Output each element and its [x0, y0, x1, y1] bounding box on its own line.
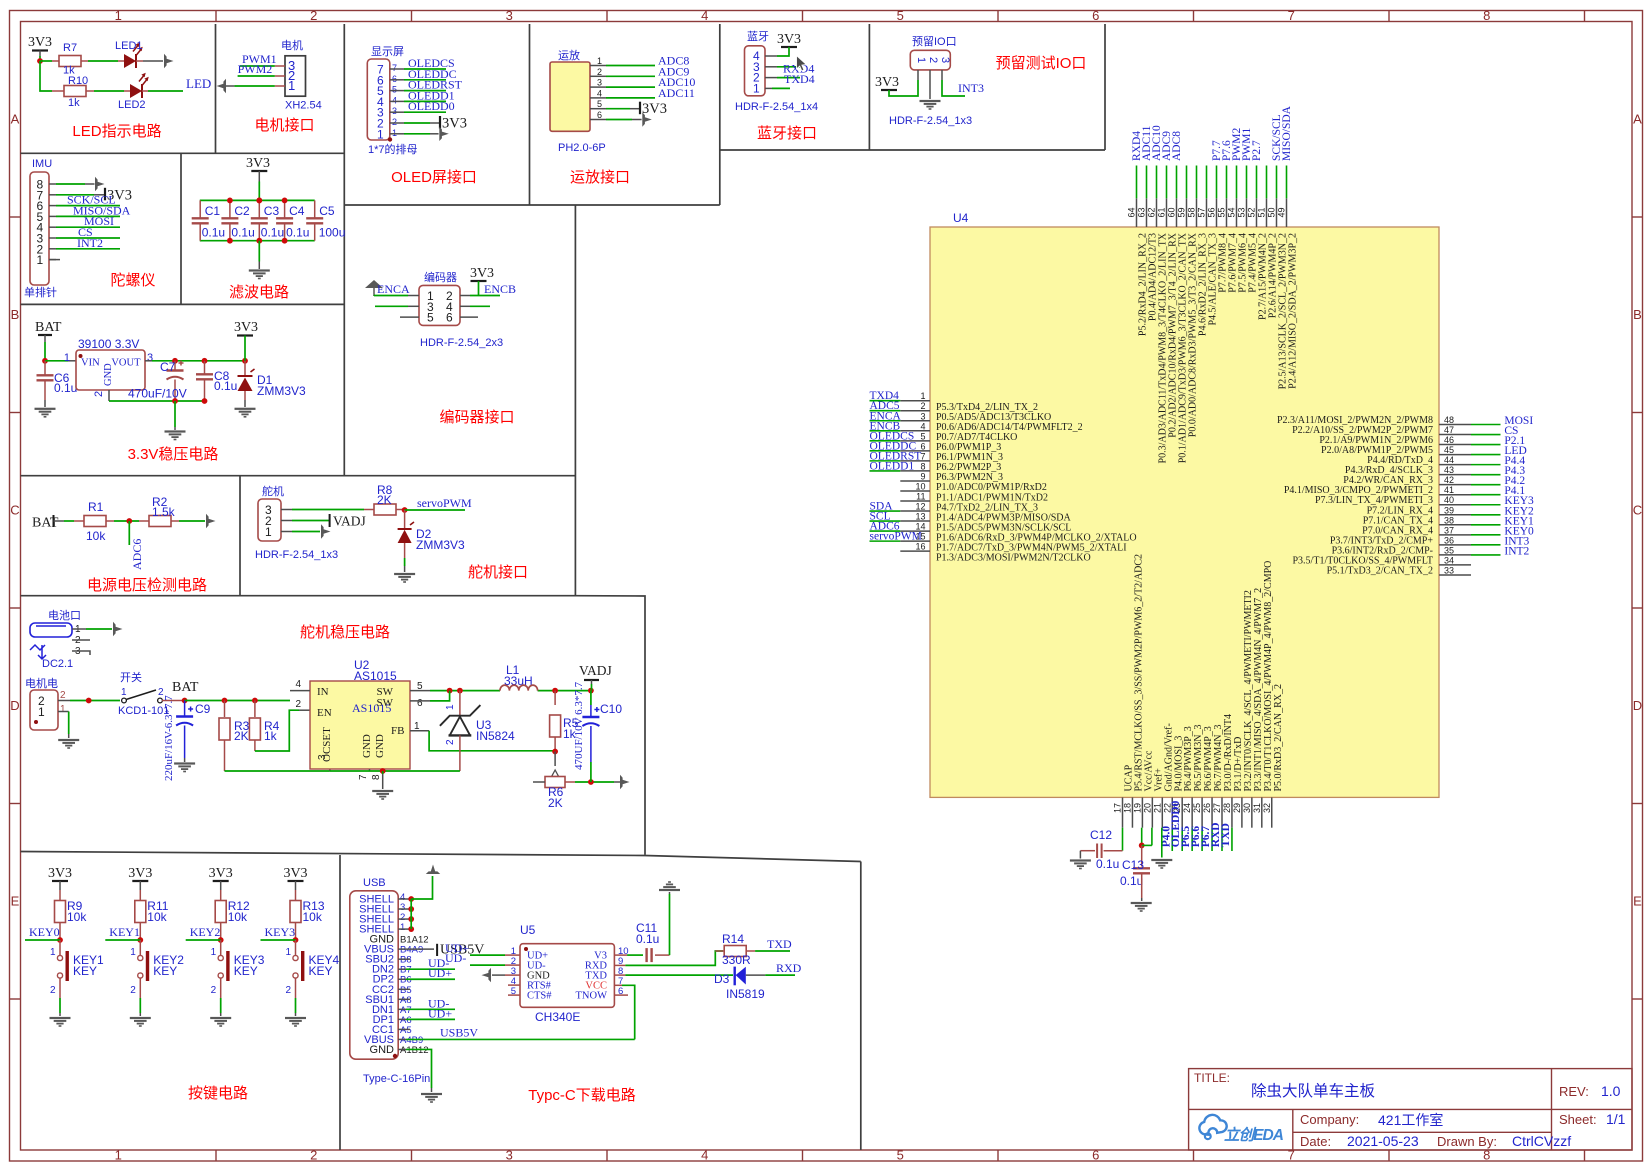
- svg-text:2: 2: [130, 985, 136, 996]
- svg-text:1: 1: [597, 56, 602, 66]
- svg-text:INT2: INT2: [1504, 545, 1529, 557]
- svg-text:3: 3: [920, 411, 925, 421]
- potentiometer R6: [545, 770, 565, 788]
- capacitor C1: [199, 200, 201, 218]
- svg-text:预留IO口: 预留IO口: [912, 35, 957, 48]
- wire: [404, 558, 406, 566]
- port bat1: [113, 622, 123, 636]
- wire motor-power pin2 to gnd: [58, 711, 69, 713]
- wire: [772, 87, 790, 89]
- svg-text:D: D: [10, 698, 19, 713]
- wire: [470, 295, 500, 297]
- svg-text:53: 53: [1237, 207, 1247, 217]
- svg-text:陀螺仪: 陀螺仪: [110, 272, 155, 289]
- junction: [126, 518, 132, 524]
- MCU bottom pins group: [1113, 554, 1284, 851]
- svg-text:单排针: 单排针: [24, 285, 57, 299]
- junction: [137, 937, 143, 943]
- net flag VADJ (servo): [281, 520, 292, 522]
- svg-text:KEY1: KEY1: [109, 925, 140, 939]
- wire: [258, 182, 260, 201]
- svg-text:BAT: BAT: [172, 680, 199, 695]
- svg-text:4: 4: [392, 95, 397, 105]
- capacitor: [647, 948, 652, 962]
- svg-text:ADC11: ADC11: [658, 86, 695, 100]
- wire DN2 UD-: [398, 968, 406, 970]
- wire: [590, 762, 592, 782]
- svg-text:35: 35: [1444, 545, 1454, 555]
- svg-text:Sheet:: Sheet:: [1559, 1112, 1597, 1127]
- wire FB: [410, 730, 429, 732]
- power flag 3V3: [288, 880, 304, 882]
- pushbutton KEY2: [139, 940, 141, 956]
- svg-text:8: 8: [1483, 8, 1490, 23]
- svg-text:servoPWM: servoPWM: [417, 496, 472, 510]
- svg-text:1: 1: [285, 947, 291, 958]
- wire: [292, 531, 320, 533]
- svg-text:0.1u: 0.1u: [202, 226, 225, 240]
- wire shell tie: [410, 899, 412, 929]
- svg-text:0.1u: 0.1u: [286, 226, 309, 240]
- svg-text:VIN: VIN: [81, 358, 100, 369]
- wire: [470, 964, 505, 966]
- svg-text:42: 42: [1444, 475, 1454, 485]
- resistor R2: [139, 520, 149, 522]
- svg-text:6: 6: [597, 110, 602, 120]
- ground: [421, 1093, 442, 1103]
- junction: [282, 238, 288, 244]
- svg-text:1.0: 1.0: [1601, 1083, 1621, 1099]
- wire: [470, 305, 490, 307]
- svg-text:A: A: [11, 112, 20, 127]
- port u5 gnd: [482, 968, 492, 982]
- svg-text:4: 4: [295, 679, 301, 690]
- svg-text:61: 61: [1157, 207, 1167, 217]
- wire LED1 out: [136, 60, 143, 62]
- wire: [128, 521, 130, 545]
- svg-text:43: 43: [1444, 465, 1454, 475]
- svg-text:36: 36: [1444, 535, 1454, 545]
- svg-text:GND: GND: [374, 734, 386, 758]
- svg-text:INT3: INT3: [958, 81, 984, 95]
- wire IMU pin: [49, 226, 56, 228]
- wire: [404, 79, 446, 81]
- svg-text:1: 1: [377, 127, 384, 141]
- svg-text:2: 2: [295, 699, 301, 710]
- junction shell: [408, 916, 414, 922]
- svg-text:REV:: REV:: [1559, 1084, 1589, 1099]
- svg-text:PH2.0-6P: PH2.0-6P: [558, 142, 606, 154]
- resistor R5: [554, 691, 556, 705]
- zener diode D2 ZMM3V3: [404, 510, 406, 528]
- junction: [282, 198, 288, 204]
- resistor: [64, 86, 86, 97]
- svg-text:B: B: [11, 307, 20, 322]
- svg-text:U5: U5: [520, 923, 536, 937]
- wire bt pin1: [765, 87, 772, 89]
- wire TXD pin8 to D3: [614, 974, 625, 976]
- wire opamp pin: [590, 75, 606, 77]
- svg-text:TNOW: TNOW: [576, 991, 608, 1002]
- wire servo pin3 to R8: [281, 509, 292, 511]
- svg-text:59: 59: [1177, 207, 1187, 217]
- svg-text:电机接口: 电机接口: [254, 117, 314, 134]
- svg-text:RXD: RXD: [776, 961, 802, 975]
- svg-text:BAT: BAT: [35, 320, 62, 335]
- svg-text:ZMM3V3: ZMM3V3: [257, 384, 306, 398]
- wire 3V3 to R7 and R10: [39, 51, 41, 57]
- wire: [40, 60, 52, 62]
- wire IMU pin: [49, 248, 56, 250]
- junction: [402, 507, 408, 513]
- wire: [606, 119, 632, 121]
- svg-text:VADJ: VADJ: [333, 514, 366, 529]
- svg-text:D3: D3: [714, 972, 730, 986]
- wire: [59, 998, 61, 1013]
- svg-text:TXD: TXD: [1220, 823, 1232, 847]
- wire: [148, 90, 183, 92]
- junction: [588, 779, 594, 785]
- svg-text:IN5819: IN5819: [726, 987, 765, 1001]
- svg-text:6: 6: [392, 74, 397, 84]
- svg-text:P2.4/A12/MISO_2/SDA_2/PWM3P_2: P2.4/A12/MISO_2/SDA_2/PWM3P_2: [1288, 233, 1299, 389]
- svg-text:4: 4: [920, 421, 925, 431]
- svg-text:6: 6: [1092, 1148, 1099, 1163]
- svg-text:除虫大队单车主板: 除虫大队单车主板: [1251, 1082, 1375, 1100]
- ground: [35, 408, 56, 418]
- svg-text:VADJ: VADJ: [579, 663, 612, 678]
- svg-text:电机: 电机: [281, 38, 303, 52]
- wire: [406, 978, 455, 980]
- MCU left pins group: [870, 390, 1137, 563]
- svg-text:470uF/10V: 470uF/10V: [128, 387, 187, 401]
- junction: [222, 698, 228, 704]
- wire IMU pin: [49, 215, 56, 217]
- schottky diode U3 IN5824: [459, 691, 461, 716]
- svg-text:5: 5: [897, 1148, 904, 1163]
- junction: [256, 198, 262, 204]
- LED LED2: [124, 90, 130, 92]
- wire pin3: [408, 305, 419, 307]
- svg-text:C5: C5: [319, 204, 335, 218]
- svg-text:13: 13: [915, 512, 925, 522]
- resistor R1: [74, 520, 84, 522]
- svg-text:按键电路: 按键电路: [188, 1085, 248, 1102]
- svg-text:4: 4: [597, 88, 602, 98]
- power flag 3V3: [213, 880, 229, 882]
- svg-text:1/1: 1/1: [1606, 1111, 1626, 1127]
- power flag 3V3: [251, 170, 267, 172]
- wire DP1 UD+: [398, 1018, 406, 1020]
- svg-text:3V3: 3V3: [48, 866, 72, 881]
- wire: [261, 939, 296, 941]
- svg-text:1k: 1k: [68, 97, 80, 109]
- wire GND bottom: [398, 1048, 406, 1050]
- junction shell: [408, 906, 414, 912]
- ground: [1070, 859, 1091, 869]
- junction: [182, 698, 188, 704]
- resistor: [84, 516, 106, 527]
- svg-text:2: 2: [211, 985, 217, 996]
- wire: [374, 295, 408, 297]
- wire: [765, 974, 795, 976]
- svg-text:24: 24: [1182, 803, 1192, 813]
- wire DP2 UD+: [398, 978, 406, 980]
- wire: [411, 876, 432, 899]
- wire: [56, 248, 120, 250]
- wire: [56, 215, 120, 217]
- svg-text:2: 2: [50, 985, 56, 996]
- wire: [429, 731, 555, 751]
- wire: [292, 509, 364, 511]
- svg-text:63: 63: [1137, 207, 1147, 217]
- resistor: [215, 901, 226, 923]
- svg-text:1: 1: [915, 57, 927, 63]
- junction: [37, 58, 43, 64]
- LCEDA logo: [1199, 1115, 1284, 1144]
- svg-text:16: 16: [915, 542, 925, 552]
- svg-text:Date:: Date:: [1300, 1134, 1331, 1149]
- wire IMU pin: [49, 194, 56, 196]
- wire: [622, 985, 635, 1039]
- svg-text:12: 12: [915, 502, 925, 512]
- svg-text:1: 1: [130, 947, 136, 958]
- svg-text:1: 1: [753, 81, 760, 95]
- wire pin4: [460, 305, 470, 307]
- svg-text:servoPWM: servoPWM: [870, 531, 922, 543]
- wire IMU pin: [49, 183, 56, 185]
- wire: [25, 939, 60, 941]
- wire: [404, 90, 446, 92]
- wire RXD pin9 to R14: [614, 964, 625, 966]
- section partition lines: [21, 24, 1106, 1150]
- wire: [258, 241, 260, 262]
- svg-text:3: 3: [147, 352, 153, 364]
- svg-text:KEY3: KEY3: [265, 925, 296, 939]
- capacitor C3: [258, 200, 260, 218]
- svg-text:KEY2: KEY2: [190, 925, 221, 939]
- power flag 3V3: [881, 89, 897, 91]
- wire: [179, 520, 205, 522]
- ground: [174, 762, 195, 772]
- wire: [225, 770, 330, 772]
- resistor: [550, 715, 561, 737]
- wire: [88, 60, 118, 62]
- svg-text:0.1u: 0.1u: [1120, 874, 1143, 888]
- wire: [406, 1008, 455, 1010]
- wire IMU pin: [49, 205, 56, 207]
- wire: [404, 111, 446, 113]
- svg-text:3: 3: [597, 78, 602, 88]
- svg-text:Typc-C下载电路: Typc-C下载电路: [528, 1087, 636, 1104]
- capacitor C8: [204, 361, 206, 374]
- junction: [552, 749, 558, 755]
- wire VCC pin7 to USB5V: [614, 984, 622, 986]
- capacitor C9 electrolytic (blue): [184, 701, 186, 717]
- svg-text:10k: 10k: [67, 910, 87, 924]
- svg-text:IN: IN: [317, 686, 329, 698]
- wire VOUT to 3V3: [145, 360, 152, 362]
- wire: [625, 974, 733, 976]
- svg-text:舵机接口: 舵机接口: [468, 564, 528, 581]
- svg-text:1: 1: [392, 128, 397, 138]
- wire Vcc pin19 to C13: [1141, 828, 1143, 846]
- capacitor: [176, 707, 193, 726]
- svg-text:电池口: 电池口: [48, 609, 81, 622]
- junction: [227, 238, 233, 244]
- port oled pin1: [439, 127, 449, 141]
- port detect: [206, 514, 216, 528]
- svg-text:0.1u: 0.1u: [261, 226, 284, 240]
- svg-text:OLEDD1: OLEDD1: [870, 460, 915, 472]
- ground: [58, 739, 79, 749]
- svg-text:62: 62: [1147, 207, 1157, 217]
- wire: [606, 65, 655, 67]
- capacitor C13: [1141, 845, 1143, 866]
- wire: [45, 360, 68, 362]
- svg-text:1: 1: [50, 947, 56, 958]
- svg-text:10: 10: [915, 481, 925, 491]
- port gnd-left: [217, 79, 227, 93]
- svg-text:5: 5: [427, 311, 434, 325]
- capacitor C5: [314, 200, 316, 218]
- ground: [920, 100, 941, 110]
- wire VBUS to USB5V net: [398, 1038, 406, 1040]
- svg-text:17: 17: [1113, 803, 1123, 813]
- svg-text:A1B12: A1B12: [400, 1045, 429, 1056]
- DC jack symbol DC2.1: [30, 645, 46, 659]
- svg-text:2: 2: [310, 8, 317, 23]
- svg-text:5: 5: [392, 85, 397, 95]
- ground: [1131, 902, 1152, 912]
- svg-text:9: 9: [920, 471, 925, 481]
- svg-text:6: 6: [1092, 8, 1099, 23]
- ground: [285, 1017, 306, 1027]
- svg-text:60: 60: [1167, 207, 1177, 217]
- power flag 3V3: [52, 880, 68, 882]
- svg-text:XH2.54: XH2.54: [285, 100, 322, 112]
- svg-text:TXD: TXD: [767, 937, 792, 951]
- wire: [942, 80, 965, 96]
- svg-text:38: 38: [1444, 515, 1454, 525]
- svg-text:10k: 10k: [228, 910, 248, 924]
- svg-text:2: 2: [310, 1148, 317, 1163]
- svg-text:KEY: KEY: [153, 964, 177, 978]
- wire opamp pin: [590, 86, 606, 88]
- wire ENCA pin1: [408, 295, 419, 297]
- wire: [404, 122, 430, 124]
- svg-text:44: 44: [1444, 455, 1454, 465]
- svg-text:P1.3/ADC3/MOSI/PWM2N/T2CLKO: P1.3/ADC3/MOSI/PWM2N/T2CLKO: [936, 552, 1091, 563]
- ground: [394, 573, 415, 583]
- MCU right pins group: [1277, 415, 1534, 576]
- svg-text:Company:: Company:: [1300, 1112, 1359, 1127]
- svg-text:3V3: 3V3: [470, 266, 494, 281]
- svg-text:11: 11: [916, 492, 925, 502]
- svg-text:KEY0: KEY0: [29, 925, 60, 939]
- svg-text:52: 52: [1247, 207, 1257, 217]
- svg-text:40: 40: [1444, 495, 1454, 505]
- svg-text:26: 26: [1202, 803, 1212, 813]
- svg-text:10k: 10k: [303, 910, 323, 924]
- svg-text:HDR-F-2.54_1x3: HDR-F-2.54_1x3: [255, 549, 338, 561]
- svg-text:C2: C2: [234, 204, 250, 218]
- wire: [186, 939, 221, 941]
- svg-text:1: 1: [60, 704, 66, 715]
- svg-text:3: 3: [506, 1148, 513, 1163]
- junction: [227, 198, 233, 204]
- svg-text:0.1u: 0.1u: [636, 932, 659, 946]
- svg-text:3: 3: [392, 106, 397, 116]
- svg-text:2: 2: [60, 690, 66, 701]
- wire PWM2: [275, 75, 285, 77]
- svg-text:2K: 2K: [377, 493, 392, 507]
- wire: [406, 968, 455, 970]
- svg-text:7: 7: [1288, 8, 1295, 23]
- svg-text:GND: GND: [103, 363, 114, 386]
- svg-text:编码器: 编码器: [424, 270, 457, 284]
- svg-text:C: C: [1633, 503, 1642, 518]
- ground: [50, 1017, 71, 1027]
- capacitor C12: [1097, 844, 1102, 859]
- svg-text:3V3: 3V3: [128, 866, 152, 881]
- svg-text:1k: 1k: [264, 729, 278, 743]
- svg-text:6: 6: [417, 698, 423, 709]
- pushbutton KEY3: [220, 940, 222, 956]
- svg-text:P5.1/TxD3_2/CAN_TX_2: P5.1/TxD3_2/CAN_TX_2: [1327, 565, 1433, 576]
- svg-text:CH340E: CH340E: [535, 1010, 580, 1024]
- svg-text:2: 2: [93, 391, 105, 397]
- svg-text:显示屏: 显示屏: [371, 45, 404, 58]
- wire OLED pin: [390, 68, 404, 70]
- junction: [252, 698, 258, 704]
- wire: [56, 237, 120, 239]
- junction: [202, 398, 208, 404]
- wire: [625, 951, 723, 965]
- svg-text:C7: C7: [160, 360, 176, 374]
- svg-text:U4: U4: [953, 211, 969, 225]
- svg-text:1: 1: [38, 705, 45, 719]
- svg-text:USB5V: USB5V: [440, 1025, 478, 1039]
- svg-text:3: 3: [506, 8, 513, 23]
- capacitor C7 electrolytic: [174, 361, 176, 370]
- power flag 3V3: [471, 280, 487, 282]
- svg-text:0.1u: 0.1u: [54, 381, 77, 395]
- svg-text:21: 21: [1152, 803, 1162, 813]
- wire: [200, 199, 315, 201]
- wire: [109, 400, 205, 402]
- wire ENCB pin2: [460, 295, 470, 297]
- svg-text:1: 1: [115, 8, 122, 23]
- ground (encoder): [365, 280, 383, 296]
- wire: [575, 781, 614, 783]
- svg-text:BAT: BAT: [32, 516, 59, 531]
- svg-text:CtrlCVzzf: CtrlCVzzf: [1512, 1133, 1571, 1149]
- svg-text:C1: C1: [205, 204, 221, 218]
- capacitor: [582, 707, 599, 726]
- svg-text:D: D: [1633, 698, 1642, 713]
- svg-text:LED指示电路: LED指示电路: [72, 123, 161, 140]
- svg-text:HDR-F-2.54_1x4: HDR-F-2.54_1x4: [735, 101, 818, 113]
- wire: [373, 295, 375, 298]
- wire: [606, 97, 655, 99]
- svg-text:E: E: [1633, 894, 1642, 909]
- svg-text:56: 56: [1207, 207, 1217, 217]
- power flag 3V3: [32, 49, 48, 51]
- svg-text:1*7的排母: 1*7的排母: [368, 142, 418, 156]
- wire OLED pin: [390, 122, 404, 124]
- svg-text:2: 2: [597, 67, 602, 77]
